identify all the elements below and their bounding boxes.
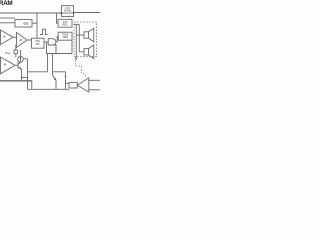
- svg-text:REG: REG: [63, 24, 68, 26]
- svg-text:OSC: OSC: [35, 41, 40, 43]
- svg-text:DIV: DIV: [36, 44, 40, 46]
- svg-text:OSC: OSC: [24, 24, 29, 26]
- svg-text:REGULATOR: REGULATOR: [60, 12, 74, 15]
- svg-text:RAM: RAM: [0, 0, 12, 7]
- svg-text:GEN: GEN: [63, 37, 68, 39]
